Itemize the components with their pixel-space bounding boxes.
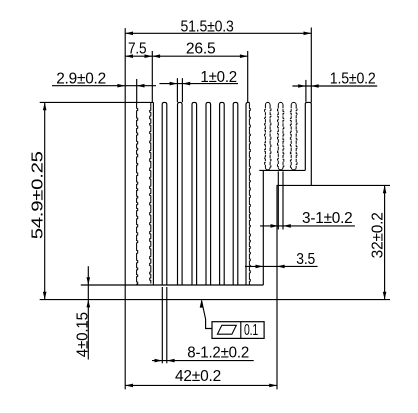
svg-text:3.5: 3.5 [296,251,315,268]
wire fin G outline [246,102,250,285]
node dim 32±0.2 [384,185,386,299]
wire extension line x152 [151,51,153,102]
node dim 54.9±0.25 [44,102,46,299]
wire slot floor line [259,169,305,171]
wire extension line x136.7 [136,79,138,102]
wire fin E outline [220,102,225,285]
svg-text:0.1: 0.1 [244,322,258,339]
wire extension line [305,80,307,102]
wire extension line [181,78,183,102]
svg-text:3-1±0.2: 3-1±0.2 [302,210,353,227]
wire fin C outline [192,102,197,285]
wire fin F outline [233,102,238,285]
svg-text:8-1.2±0.2: 8-1.2±0.2 [187,345,249,362]
wire fin B outline [178,102,183,285]
wire extension line [166,287,168,363]
wire extension line [277,171,279,229]
node dim 4±0.15 [87,266,89,359]
wire base top surface / 4 top extension [81,284,263,286]
wire serrated slot H [265,102,270,105]
wire thick fin serrated slot wall right [150,103,151,284]
wire thick fin serrated slot wall left [137,103,138,284]
svg-text:42±0.2: 42±0.2 [175,368,221,385]
node dim 3.5 [245,265,318,267]
svg-text:4±0.15: 4±0.15 [75,312,92,357]
wire base right edge / extension line [276,185,278,389]
wire leader to flatness frame [202,300,213,328]
wire thick fin right edge [152,102,154,285]
node flatness tolerance frame 0.1 [212,322,264,339]
wire extension line [176,78,178,102]
svg-text:32±0.2: 32±0.2 [370,212,387,258]
wire serrated slot J [291,102,296,105]
svg-text:26.5: 26.5 [186,40,216,57]
wire left outer edge / extension line [124,28,126,389]
node dim 42±0.2 [125,384,277,386]
wire 54.9 top extension [40,101,125,103]
wire extension line [282,171,284,229]
svg-text:51.5±0.3: 51.5±0.3 [181,18,234,35]
wire extension line [161,287,163,363]
svg-text:54.9±0.25: 54.9±0.25 [30,151,47,239]
wire column left edge [262,170,264,285]
wire base bottom surface / extensions [40,299,390,301]
svg-text:1±0.2: 1±0.2 [200,69,237,86]
wire fin A outline [162,102,167,285]
svg-text:2.9±0.2: 2.9±0.2 [56,70,106,87]
wire fin D outline [206,102,211,285]
wire serrated slot I [278,102,283,105]
svg-text:1.5±0.2: 1.5±0.2 [330,71,376,88]
wire step surface / 32 top extension [277,184,390,186]
wire right extension line [310,28,312,103]
wire extension line x248 [247,51,249,102]
wire right wall [305,102,311,185]
wire thick fin top [125,101,154,103]
svg-text:7.5: 7.5 [128,40,146,57]
